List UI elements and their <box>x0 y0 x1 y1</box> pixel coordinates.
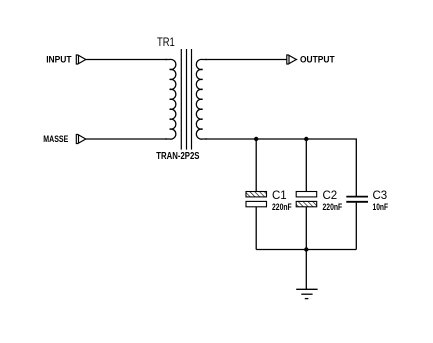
wire bottom rail C1 to C3 <box>256 249 356 251</box>
svg-text:MASSE: MASSE <box>43 134 68 144</box>
wire TR1 secondary top to OUTPUT terminal <box>205 59 287 61</box>
junction at C1 top <box>254 137 258 141</box>
svg-text:220nF: 220nF <box>323 202 343 212</box>
svg-text:OUTPUT: OUTPUT <box>300 54 335 64</box>
transformer TR1 core <box>181 49 191 150</box>
svg-text:TR1: TR1 <box>157 35 175 49</box>
junction at C2 top <box>304 137 308 141</box>
svg-text:10nF: 10nF <box>373 202 389 212</box>
svg-text:C2: C2 <box>323 188 338 202</box>
svg-text:C3: C3 <box>373 188 388 202</box>
svg-text:C1: C1 <box>272 188 287 202</box>
junction at ground stem <box>304 247 308 251</box>
capacitor C2 <box>296 139 317 250</box>
wire MASSE to TR1 primary bottom <box>86 138 168 140</box>
wire junction to ground <box>305 250 307 290</box>
capacitor C3 <box>346 197 368 250</box>
terminal MASSE <box>76 135 86 144</box>
capacitor C1 <box>246 139 267 250</box>
svg-text:220nF: 220nF <box>272 202 292 212</box>
wire TR1 secondary bottom to C3 (top rail) <box>205 139 356 196</box>
terminal INPUT <box>76 55 86 64</box>
svg-text:TRAN-2P2S: TRAN-2P2S <box>156 151 199 162</box>
wire INPUT to TR1 primary top <box>86 59 168 61</box>
svg-text:INPUT: INPUT <box>46 54 72 64</box>
transformer TR1 secondary winding <box>196 59 207 139</box>
ground <box>296 289 317 298</box>
terminal OUTPUT <box>287 55 298 64</box>
transformer TR1 primary winding <box>165 59 176 139</box>
